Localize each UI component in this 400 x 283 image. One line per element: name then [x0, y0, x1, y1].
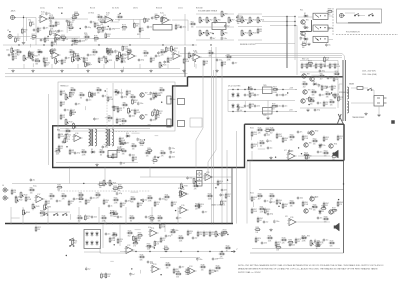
wire	[305, 40, 307, 44]
wire preamp rail	[3, 44, 197, 46]
junction	[294, 16, 295, 17]
svg-text:33K: 33K	[72, 95, 75, 97]
transistor Q12	[329, 144, 338, 149]
capacitor C126	[289, 243, 295, 247]
resistor R4	[55, 21, 60, 28]
svg-text:R37: R37	[209, 50, 212, 52]
wire dashed screen	[58, 190, 150, 192]
svg-text:R245: R245	[164, 246, 168, 248]
resistor R47	[226, 54, 233, 61]
wire pot top rail	[196, 13, 234, 15]
wire drop	[22, 207, 24, 224]
svg-text:47n: 47n	[78, 104, 81, 106]
svg-text:22u: 22u	[152, 93, 155, 95]
inductor L1 choke	[89, 129, 91, 146]
svg-text:R209: R209	[328, 9, 332, 11]
resistor R105	[60, 101, 65, 108]
inductor T1 secondary winding 1	[347, 87, 349, 99]
wire	[253, 202, 255, 207]
capacitor C13	[79, 39, 85, 43]
wire pot mid rail	[196, 26, 234, 28]
junction	[112, 20, 113, 21]
svg-text:R143: R143	[253, 132, 257, 134]
svg-text:IC8: IC8	[285, 216, 288, 218]
svg-text:-2: -2	[236, 249, 238, 251]
svg-text:R38: R38	[223, 62, 226, 64]
capacitor C117	[121, 141, 127, 145]
svg-text:1K: 1K	[251, 106, 253, 108]
wire	[122, 67, 124, 72]
diode D2	[303, 25, 309, 29]
wire vert signal 1	[202, 60, 204, 128]
op-amp U19	[178, 205, 189, 214]
junction	[115, 91, 116, 92]
resistor R217	[272, 87, 279, 94]
svg-text:1n: 1n	[105, 96, 107, 98]
resistor R107	[70, 87, 77, 94]
svg-text:R235: R235	[150, 216, 154, 218]
resistor R92	[65, 128, 72, 135]
resistor R90	[58, 133, 64, 140]
capacitor C46	[317, 101, 322, 105]
svg-text:100n: 100n	[175, 230, 179, 232]
svg-text:10K: 10K	[324, 155, 327, 157]
capacitor C112	[154, 108, 160, 112]
junction	[160, 274, 161, 275]
svg-text:R6: R6	[98, 14, 100, 16]
wire +V rail	[228, 89, 295, 91]
svg-text:R199: R199	[124, 47, 128, 49]
svg-text:R268: R268	[316, 243, 320, 245]
resistor R17	[175, 24, 182, 31]
potentiometer RV33	[119, 51, 126, 59]
svg-text:IC1: IC1	[41, 14, 44, 16]
svg-text:R222: R222	[159, 111, 163, 113]
resistor R208	[235, 18, 242, 25]
wire	[267, 101, 269, 117]
capacitor C17	[65, 56, 71, 60]
resistor R136	[68, 200, 74, 207]
resistor R233	[56, 185, 63, 192]
wire	[63, 36, 80, 38]
resistor R258	[331, 154, 338, 161]
resistor R188	[73, 12, 80, 19]
svg-text:R15: R15	[137, 34, 140, 36]
diode D11	[232, 103, 235, 109]
resistor R150	[198, 203, 204, 210]
svg-text:R164: R164	[290, 200, 294, 202]
junction	[286, 16, 287, 17]
svg-text:R253: R253	[133, 240, 137, 242]
resistor R119	[121, 118, 128, 125]
resistor R154	[77, 215, 84, 222]
svg-text:IC5a: IC5a	[33, 186, 37, 188]
op-amp U8	[126, 51, 137, 60]
capacitor C96	[113, 232, 118, 236]
junction	[131, 268, 132, 269]
wire vert signal 7	[236, 131, 238, 224]
svg-text:R48: R48	[303, 81, 306, 83]
capacitor C137	[310, 195, 316, 199]
junction	[215, 187, 216, 188]
svg-text:R78: R78	[80, 92, 83, 94]
resistor R240	[221, 200, 227, 207]
wire	[112, 83, 114, 129]
potentiometer RV34	[73, 122, 80, 130]
resistor R124	[159, 87, 166, 94]
resistor R241	[317, 241, 323, 248]
svg-text:15K: 15K	[113, 238, 116, 240]
capacitor C61	[74, 151, 80, 155]
svg-text:RV22: RV22	[197, 180, 201, 182]
junction	[338, 199, 339, 200]
IC U15 opto box	[178, 99, 185, 105]
svg-text:220n: 220n	[153, 120, 157, 122]
svg-text:TR6: TR6	[306, 99, 309, 101]
svg-text:22K: 22K	[99, 187, 102, 189]
capacitor C21	[155, 54, 161, 58]
wire 0V ground bus	[5, 223, 233, 225]
wire	[258, 148, 265, 150]
svg-text:RV26: RV26	[163, 64, 167, 66]
capacitor C120	[264, 199, 269, 203]
relay RL3 contacts	[315, 38, 326, 41]
svg-text:15K: 15K	[276, 250, 279, 252]
junction	[308, 104, 309, 105]
capacitor C92	[86, 63, 92, 67]
junction	[254, 89, 255, 90]
svg-text:R108: R108	[139, 203, 143, 205]
resistor R123	[155, 114, 160, 121]
resistor R149	[193, 183, 200, 190]
capacitor C129	[196, 257, 202, 261]
resistor R183	[99, 19, 106, 26]
potentiometer RV8	[221, 10, 228, 18]
resistor R200	[165, 46, 171, 53]
resistor R214	[333, 71, 340, 78]
resistor R251	[72, 239, 78, 246]
resistor R207	[282, 137, 288, 144]
junction bus	[88, 223, 89, 224]
svg-text:68K: 68K	[209, 55, 212, 57]
svg-text:100n: 100n	[160, 53, 164, 55]
resistor R18	[190, 21, 197, 28]
svg-text:10u: 10u	[120, 217, 123, 219]
resistor R77	[329, 99, 336, 106]
wire power amp box B top	[259, 189, 344, 191]
op-amp U27	[287, 217, 298, 226]
resistor R233	[323, 216, 330, 223]
wire footswitch drop B	[294, 17, 296, 61]
svg-text:RV20: RV20	[107, 182, 111, 184]
svg-text:8K2: 8K2	[325, 205, 328, 207]
svg-text:33K: 33K	[321, 211, 324, 213]
wire drop	[167, 64, 169, 69]
inductor L4 choke	[112, 129, 114, 146]
svg-text:1K: 1K	[257, 240, 259, 242]
svg-text:1n: 1n	[310, 132, 312, 134]
capacitor C95	[105, 232, 111, 236]
diode D20	[86, 231, 89, 237]
wire	[85, 106, 87, 110]
svg-text:2K2: 2K2	[74, 17, 77, 19]
potentiometer RV43	[23, 209, 30, 217]
resistor R102	[160, 150, 167, 157]
wire bend	[208, 150, 216, 177]
junction	[237, 89, 238, 90]
svg-text:R75: R75	[62, 115, 65, 117]
junction	[227, 234, 228, 235]
svg-text:R120: R120	[130, 215, 134, 217]
resistor R197	[126, 49, 133, 56]
capacitor C1	[33, 28, 39, 32]
diode D7	[312, 81, 318, 85]
svg-text:R30: R30	[123, 58, 126, 60]
capacitor C9	[147, 25, 153, 29]
svg-text:R168: R168	[324, 216, 328, 218]
junction	[165, 251, 166, 252]
svg-text:22K: 22K	[156, 244, 159, 246]
svg-text:15K: 15K	[313, 143, 316, 145]
svg-text:R10: R10	[155, 14, 158, 16]
wire	[84, 251, 101, 253]
svg-text:470p: 470p	[15, 54, 19, 56]
wire	[26, 18, 28, 42]
resistor R223	[113, 105, 119, 112]
resistor R237	[275, 241, 281, 248]
svg-text:TR10: TR10	[315, 131, 319, 133]
svg-text:R18 100K: R18 100K	[196, 8, 203, 10]
jack J3 footswitch	[340, 14, 345, 18]
svg-text:R39: R39	[227, 54, 230, 56]
svg-text:22K: 22K	[96, 197, 99, 199]
svg-text:D2: D2	[304, 25, 306, 27]
svg-text:2K2: 2K2	[223, 235, 226, 237]
capacitor C119	[169, 147, 175, 151]
wire	[193, 61, 195, 67]
svg-text:22K: 22K	[270, 198, 273, 200]
capacitor C15	[8, 53, 14, 57]
resistor R43	[183, 58, 190, 65]
svg-text:470p: 470p	[77, 153, 81, 155]
junction	[154, 247, 155, 248]
svg-text:15K: 15K	[52, 33, 55, 35]
svg-text:IC1a: IC1a	[41, 12, 45, 14]
resistor R93	[69, 149, 74, 156]
wire mains live bus	[188, 76, 344, 78]
wire	[49, 18, 51, 22]
potentiometer RV32	[171, 45, 178, 53]
resistor R239	[295, 238, 301, 245]
svg-text:R213: R213	[311, 97, 315, 99]
diode D3	[303, 36, 309, 40]
svg-text:IC4b: IC4b	[193, 51, 197, 53]
junction bus	[151, 223, 152, 224]
diode D12	[237, 103, 240, 109]
wire mid rail	[140, 176, 232, 178]
svg-text:R230: R230	[147, 148, 151, 150]
svg-text:RV35: RV35	[92, 94, 96, 96]
svg-text:47K: 47K	[339, 204, 342, 206]
svg-text:68K: 68K	[140, 259, 143, 261]
op-amp U23	[124, 245, 135, 254]
resistor R242	[329, 240, 336, 247]
svg-text:TR5: TR5	[308, 90, 311, 92]
svg-text:R262: R262	[321, 206, 325, 208]
junction	[203, 32, 204, 33]
capacitor C136	[269, 200, 275, 204]
wire heater feed 3	[200, 57, 342, 59]
diode D1	[303, 13, 309, 17]
relay RL3	[313, 36, 328, 42]
svg-text:R216: R216	[272, 104, 276, 106]
svg-text:R12: R12	[191, 21, 194, 23]
transformer T3 core	[108, 129, 110, 146]
wire drop	[77, 64, 79, 69]
svg-text:2K2: 2K2	[303, 86, 306, 88]
svg-text:R227: R227	[56, 149, 60, 151]
svg-text:R23: R23	[45, 58, 48, 60]
resistor R153	[225, 193, 231, 200]
wire	[55, 39, 57, 45]
svg-text:R81: R81	[109, 97, 112, 99]
svg-text:4K7: 4K7	[57, 24, 60, 26]
capacitor C81	[56, 199, 62, 203]
capacitor C88	[202, 210, 208, 214]
wire drop	[177, 207, 179, 224]
junction	[311, 99, 312, 100]
svg-text:RV14: RV14	[27, 57, 31, 59]
wire	[303, 26, 308, 28]
svg-text:R136: R136	[166, 262, 170, 264]
svg-text:RV19: RV19	[24, 194, 28, 196]
capacitor C47	[314, 108, 320, 112]
svg-text:RV34: RV34	[76, 125, 80, 127]
junction	[143, 201, 144, 202]
svg-text:R74: R74	[62, 102, 65, 104]
svg-text:4n7: 4n7	[213, 38, 216, 40]
potentiometer RV22	[193, 177, 200, 185]
resistor R206	[106, 47, 112, 54]
svg-text:470p: 470p	[141, 60, 145, 62]
capacitor C55	[276, 104, 282, 108]
svg-text:REVERB CONTROL: REVERB CONTROL	[240, 44, 256, 46]
svg-text:68K: 68K	[158, 220, 161, 222]
svg-text:8K2: 8K2	[47, 203, 50, 205]
wire	[251, 137, 253, 141]
svg-text:R90: R90	[108, 115, 111, 117]
junction bus	[211, 223, 212, 224]
wire	[311, 74, 319, 76]
svg-text:68K: 68K	[72, 114, 75, 116]
wire	[337, 61, 339, 109]
svg-text:R242: R242	[195, 203, 199, 205]
resistor R166	[170, 229, 177, 236]
resistor R221	[251, 196, 257, 203]
capacitor C97	[221, 37, 227, 41]
svg-text:1n: 1n	[117, 51, 119, 53]
inductor L3 choke	[106, 129, 108, 146]
capacitor C97	[165, 234, 171, 238]
svg-text:RV43: RV43	[26, 212, 30, 214]
resistor R133	[45, 200, 50, 207]
wire preamp ground rail	[8, 68, 180, 70]
resistor R205	[276, 133, 283, 140]
transistor Q10	[304, 143, 312, 148]
svg-text:IC7: IC7	[284, 150, 287, 152]
wire vert signal 4	[215, 47, 217, 150]
wire	[298, 155, 330, 157]
ground	[86, 69, 89, 72]
resistor R213	[337, 135, 343, 142]
svg-text:IC18: IC18	[181, 189, 184, 191]
svg-text:R57: R57	[251, 93, 254, 95]
svg-text:R89: R89	[118, 119, 121, 121]
resistor R175	[173, 268, 180, 275]
capacitor C69	[86, 98, 92, 102]
resistor R30	[37, 49, 44, 56]
svg-text:R72: R72	[153, 158, 156, 160]
junction bus	[106, 223, 107, 224]
svg-text:22u: 22u	[124, 61, 127, 63]
op-amp U24	[150, 264, 161, 273]
svg-text:R71: R71	[161, 150, 164, 152]
resistor R42	[167, 57, 172, 64]
junction	[149, 251, 150, 252]
svg-text:1n: 1n	[267, 201, 269, 203]
capacitor C104	[318, 84, 323, 88]
ground	[120, 69, 123, 72]
svg-text:R146: R146	[270, 127, 274, 129]
svg-text:R193: R193	[74, 39, 78, 41]
capacitor C139	[273, 220, 279, 224]
junction	[244, 111, 245, 112]
svg-text:R80: R80	[97, 87, 100, 89]
capacitor C42	[324, 64, 330, 68]
svg-text:33K: 33K	[176, 276, 179, 278]
svg-text:2u2: 2u2	[88, 268, 91, 270]
svg-text:68K: 68K	[45, 60, 48, 62]
junction	[298, 147, 299, 148]
wire drop	[149, 168, 151, 178]
wire	[300, 107, 336, 109]
svg-text:4n7: 4n7	[127, 143, 130, 145]
svg-text:R161: R161	[260, 206, 264, 208]
transistor Q7	[140, 93, 148, 98]
wire	[359, 15, 365, 17]
wire	[155, 135, 159, 137]
resistor R203	[85, 61, 92, 68]
potentiometer RV7	[228, 16, 235, 24]
resistor R104	[60, 90, 66, 97]
resistor R131	[25, 196, 32, 203]
svg-text:4K7: 4K7	[62, 104, 65, 106]
junction	[278, 206, 279, 207]
op-amp U1 input buffer	[38, 14, 49, 23]
svg-text:47n: 47n	[48, 13, 51, 15]
svg-text:TR7: TR7	[145, 93, 148, 95]
resistor R141	[113, 197, 120, 204]
resistor R226	[259, 206, 266, 213]
svg-text:R31: R31	[144, 50, 147, 52]
svg-text:R201: R201	[250, 128, 254, 130]
svg-text:33K: 33K	[109, 51, 112, 53]
svg-text:IC22: IC22	[127, 245, 130, 247]
resistor R227	[54, 149, 61, 156]
resistor R67	[319, 73, 326, 80]
IC U4 tone block	[153, 25, 172, 31]
svg-text:10K: 10K	[50, 198, 53, 200]
